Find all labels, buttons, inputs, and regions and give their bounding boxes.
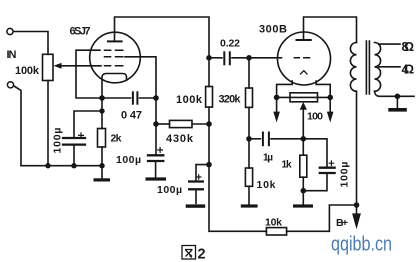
svg-text:4Ω: 4Ω <box>402 63 415 77</box>
svg-text:100µ: 100µ <box>116 154 141 166</box>
svg-text:IN: IN <box>7 49 17 61</box>
svg-text:qqibb.cn: qqibb.cn <box>331 234 392 256</box>
svg-text:6SJ7: 6SJ7 <box>70 26 91 38</box>
svg-text:2k: 2k <box>111 133 122 145</box>
svg-text:100µ: 100µ <box>157 184 182 196</box>
svg-text:0.22: 0.22 <box>220 38 240 50</box>
svg-text:100: 100 <box>307 111 323 123</box>
svg-text:10k: 10k <box>265 217 282 229</box>
svg-text:1k: 1k <box>282 160 292 171</box>
svg-text:320k: 320k <box>219 94 242 106</box>
svg-text:8Ω: 8Ω <box>402 40 415 54</box>
svg-text:10k: 10k <box>257 179 276 191</box>
svg-text:1µ: 1µ <box>263 153 273 164</box>
svg-text:100k: 100k <box>176 94 203 106</box>
svg-text:2: 2 <box>198 247 206 262</box>
svg-text:430k: 430k <box>166 133 194 145</box>
svg-text:B+: B+ <box>336 217 348 229</box>
svg-text:100k: 100k <box>15 65 40 77</box>
svg-text:0 47: 0 47 <box>121 110 142 122</box>
svg-text:100µ: 100µ <box>339 162 351 188</box>
svg-text:100µ: 100µ <box>52 128 64 154</box>
svg-text:300B: 300B <box>259 24 287 36</box>
